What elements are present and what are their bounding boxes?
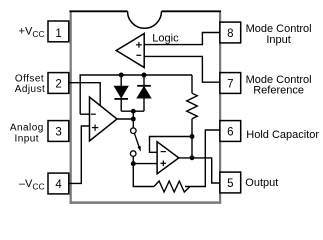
node: top rail right diode — [142, 73, 147, 78]
node: R1 bottom on output — [190, 155, 195, 160]
svg-text:Output: Output — [245, 177, 278, 189]
pin 8 — [220, 22, 241, 43]
wire: U1 output to switch node — [117, 118, 133, 120]
resistor R1 (feedback, vertical) — [187, 75, 198, 158]
wire: pin 8 to logic + input — [144, 33, 220, 45]
wire: pin 7 to logic - input — [144, 56, 220, 82]
node: diode rail junction — [131, 109, 136, 114]
wire: feedback top rail — [80, 75, 192, 114]
pin 6 — [220, 121, 241, 142]
svg-text:Reference: Reference — [253, 85, 304, 97]
label Analog Input (pin 3) — [10, 122, 44, 144]
pin 4 — [48, 173, 69, 194]
node: top rail left diode — [119, 73, 124, 78]
svg-text:Logic: Logic — [152, 33, 179, 45]
svg-text:4: 4 — [55, 179, 62, 191]
wire: switch to hold node — [132, 156, 134, 163]
label Mode Control Input (pin 8) — [246, 23, 312, 46]
svg-text:3: 3 — [55, 127, 61, 139]
diode D1 (clamp, anode to top rail) — [114, 75, 128, 111]
svg-text:Adjust: Adjust — [15, 84, 46, 95]
op-amp U1 (input amplifier) — [90, 97, 118, 141]
svg-text:Input: Input — [15, 134, 40, 145]
svg-text:Analog: Analog — [10, 122, 44, 133]
pin 1 — [48, 21, 69, 42]
switch SW1 (sampling switch) — [130, 128, 140, 157]
logic comparator U3 — [116, 34, 144, 68]
svg-text:Input: Input — [266, 34, 290, 46]
svg-text:7: 7 — [227, 79, 233, 91]
pin 7 — [220, 73, 241, 94]
wire: resistor up to pin 6 — [185, 130, 220, 187]
svg-text:8: 8 — [227, 28, 233, 40]
pin 5 — [220, 172, 241, 193]
diode D2 (clamp, cathode to top rail) — [137, 75, 151, 111]
wire: pin 4 to U1 + input — [69, 126, 90, 183]
op-amp U2 (output amplifier) — [157, 142, 179, 174]
wire: inverting input stub of U1 — [80, 113, 89, 115]
svg-text:2: 2 — [55, 79, 61, 91]
wire: hold node down to series resistor — [133, 164, 154, 187]
svg-text:6: 6 — [227, 127, 233, 139]
svg-text:1: 1 — [55, 28, 61, 40]
svg-text:Hold Capacitor: Hold Capacitor — [246, 129, 319, 141]
wire: U2 output to pin 5 — [179, 158, 220, 183]
IC package body (DIP-8 outline) — [69, 11, 221, 204]
node: R1 to U2 - feedback — [190, 134, 195, 139]
svg-text:Offset: Offset — [15, 74, 44, 85]
svg-text:5: 5 — [227, 178, 233, 190]
wire: diode bottom rail — [121, 110, 144, 112]
pin 3 — [48, 121, 69, 142]
wire: diode rail to switch — [132, 111, 134, 128]
label Mode Control Reference (pin 7) — [246, 74, 312, 97]
pin 2 — [48, 73, 69, 94]
label Offset Adjust (pin 2) — [15, 74, 46, 95]
node: hold node junction — [131, 161, 136, 166]
wire: U2 - input feedback tap — [150, 137, 193, 153]
pin-1 index notch — [128, 11, 162, 28]
wire: hold node to U2 + input — [133, 163, 157, 165]
wire: pin 2 offset adjust to U1 — [69, 83, 100, 106]
resistor R2 (series to hold capacitor, horizontal) — [154, 181, 190, 192]
node: U1 output junction — [131, 117, 136, 122]
